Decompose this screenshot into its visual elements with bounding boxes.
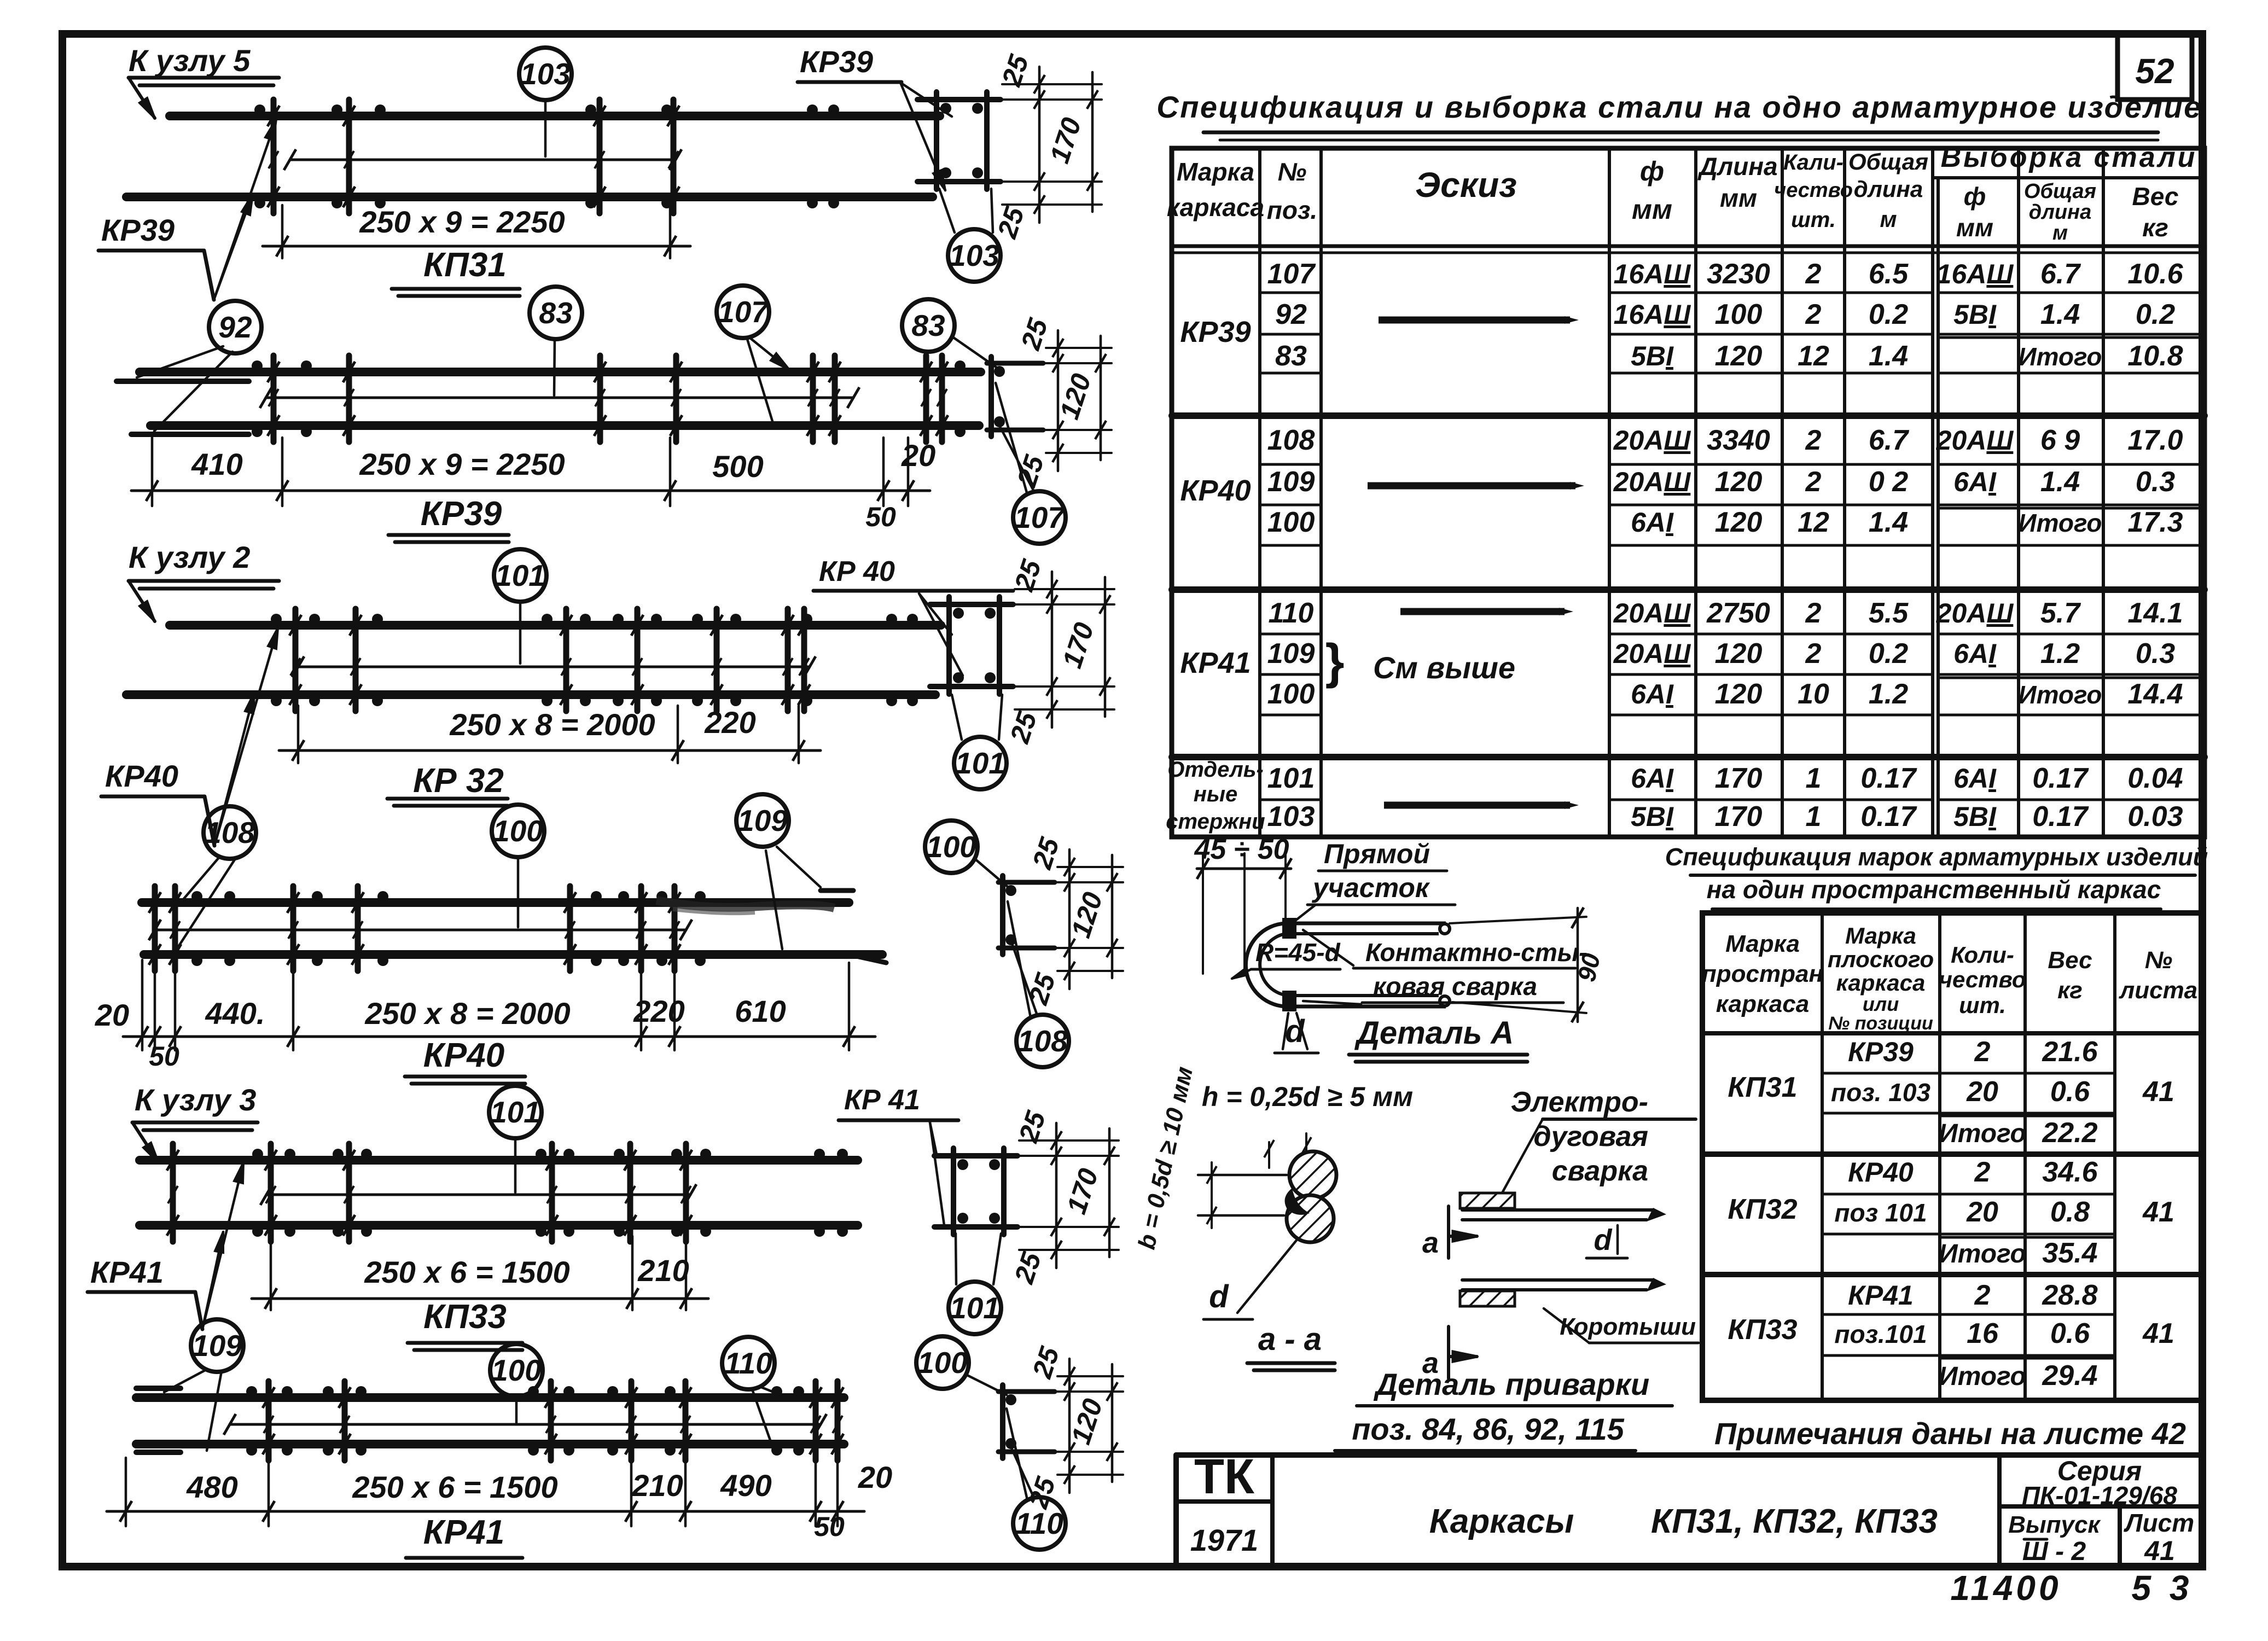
svg-text:16АШ: 16АШ <box>1614 259 1691 289</box>
callout 92 <box>209 301 261 353</box>
svg-text:210: 210 <box>631 1468 683 1503</box>
svg-text:Электро-: Электро- <box>1511 1086 1648 1118</box>
svg-text:41: 41 <box>2142 1318 2174 1349</box>
svg-text:участок: участок <box>1311 872 1430 903</box>
svg-text:поз 101: поз 101 <box>1834 1198 1927 1227</box>
svg-text:Вес: Вес <box>2132 182 2179 211</box>
svg-text:См выше: См выше <box>1373 650 1515 685</box>
svg-text:Прямой: Прямой <box>1324 839 1430 869</box>
svg-text:Спецификация и выборка стали н: Спецификация и выборка стали на одно арм… <box>1156 90 2202 124</box>
top chord bar <box>170 621 941 630</box>
svg-text:КР 41: КР 41 <box>844 1084 920 1116</box>
svg-text:20АШ: 20АШ <box>1613 638 1691 669</box>
svg-text:КР41: КР41 <box>90 1255 164 1289</box>
svg-text:100: 100 <box>1267 678 1315 710</box>
svg-text:220: 220 <box>704 705 755 740</box>
svg-text:0.6: 0.6 <box>2050 1318 2090 1349</box>
stirrup <box>172 886 178 971</box>
lower bar circle <box>1287 1195 1334 1242</box>
svg-text:сварка: сварка <box>1552 1155 1648 1187</box>
svg-text:109: 109 <box>1267 638 1315 670</box>
svg-text:Эскиз: Эскиз <box>1415 165 1517 205</box>
svg-text:Итого: Итого <box>2019 342 2102 371</box>
svg-text:5ВI: 5ВI <box>1953 299 1997 330</box>
dimension 250x8=2000 | 220 <box>297 706 300 763</box>
svg-text:410: 410 <box>191 447 242 481</box>
stirrup <box>673 356 679 442</box>
svg-text:КР40: КР40 <box>105 759 178 793</box>
svg-text:К узлу 3: К узлу 3 <box>135 1083 256 1117</box>
stirrup <box>293 609 299 711</box>
upper bar circle <box>1289 1151 1336 1198</box>
svg-text:Итого: Итого <box>1939 1362 2026 1391</box>
svg-text:1: 1 <box>1806 801 1822 833</box>
svg-text:а: а <box>1422 1226 1439 1259</box>
svg-text:поз.101: поз.101 <box>1834 1320 1927 1348</box>
stirrup <box>567 886 573 971</box>
svg-text:103: 103 <box>949 238 999 272</box>
svg-text:35.4: 35.4 <box>2042 1237 2097 1269</box>
svg-text:41: 41 <box>2142 1196 2174 1228</box>
svg-text:КР39: КР39 <box>1848 1037 1914 1067</box>
svg-text:мм: мм <box>1720 184 1757 212</box>
svg-text:41: 41 <box>2142 1076 2174 1108</box>
svg-text:2: 2 <box>1805 258 1822 290</box>
svg-text:КР40: КР40 <box>1848 1157 1914 1188</box>
svg-text:ПК-01-129/68: ПК-01-129/68 <box>2022 1481 2177 1510</box>
stirrup <box>638 886 644 971</box>
svg-text:Деталь приварки: Деталь приварки <box>1374 1367 1650 1401</box>
svg-text:мм: мм <box>1956 213 1993 242</box>
svg-text:2: 2 <box>1974 1156 1991 1188</box>
stirrup <box>346 356 352 442</box>
svg-text:на один пространственный карка: на один пространственный каркас <box>1707 875 2161 904</box>
svg-text:20АШ: 20АШ <box>1613 467 1691 497</box>
svg-text:КР39: КР39 <box>1180 316 1251 348</box>
svg-text:0.17: 0.17 <box>1860 801 1917 833</box>
svg-text:100: 100 <box>493 814 543 848</box>
svg-text:120: 120 <box>1715 507 1763 538</box>
svg-text:16АШ: 16АШ <box>1936 259 2014 289</box>
svg-text:108: 108 <box>1017 1024 1068 1058</box>
svg-text:чество: чество <box>1774 179 1853 202</box>
middle tie line <box>266 1194 690 1196</box>
svg-text:0.6: 0.6 <box>2050 1076 2090 1108</box>
stirrup <box>635 609 641 711</box>
stirrup <box>714 609 720 711</box>
svg-text:Марка: Марка <box>1177 158 1254 186</box>
svg-text:1.4: 1.4 <box>2040 299 2080 330</box>
svg-text:КР39: КР39 <box>101 213 175 247</box>
svg-text:100: 100 <box>917 1346 968 1380</box>
dim line b lower <box>1198 1214 1284 1217</box>
dimension row 410 | 2250 | 500 | 20 <box>151 438 154 506</box>
svg-text:ные: ные <box>1194 782 1238 806</box>
middle tie line <box>155 929 686 932</box>
bottom chord bar <box>136 1440 844 1448</box>
svg-text:2750: 2750 <box>1706 597 1770 629</box>
svg-text:2: 2 <box>1805 424 1822 456</box>
svg-text:20АШ: 20АШ <box>1613 425 1691 456</box>
dimension 250x9=2250 <box>281 205 284 258</box>
svg-text:120: 120 <box>1715 678 1763 710</box>
svg-text:0.2: 0.2 <box>1869 638 1908 670</box>
stirrup <box>671 100 677 213</box>
svg-text:КР41: КР41 <box>1180 647 1251 679</box>
svg-text:20АШ: 20АШ <box>1936 425 2014 456</box>
svg-text:50: 50 <box>865 502 896 532</box>
svg-text:210: 210 <box>637 1253 689 1288</box>
svg-text:2: 2 <box>1974 1279 1991 1311</box>
svg-text:КР39: КР39 <box>421 495 502 533</box>
svg-text:6АI: 6АI <box>1953 763 1997 794</box>
svg-text:каркаса: каркаса <box>1167 193 1264 222</box>
svg-text:220: 220 <box>633 994 684 1028</box>
svg-text:КР41: КР41 <box>423 1514 504 1551</box>
svg-text:а - а: а - а <box>1258 1322 1322 1357</box>
stirrup <box>266 1381 272 1460</box>
svg-text:5 3: 5 3 <box>2132 1568 2194 1608</box>
cross-section S1 103 <box>917 97 1001 102</box>
svg-text:м: м <box>1880 206 1897 232</box>
svg-text:каркаса: каркаса <box>1836 970 1926 996</box>
svg-text:КП31: КП31 <box>423 246 507 284</box>
svg-text:10: 10 <box>1798 678 1829 710</box>
stirrup <box>290 886 296 971</box>
callout 107 S2 <box>1013 491 1066 544</box>
svg-text:109: 109 <box>1267 466 1315 498</box>
svg-text:R=45-d: R=45-d <box>1255 938 1341 967</box>
svg-text:шт.: шт. <box>1959 992 2006 1018</box>
svg-text:17.3: 17.3 <box>2127 507 2183 538</box>
svg-text:}: } <box>1325 635 1344 689</box>
cross-section S4 <box>998 880 1055 885</box>
stirrup <box>346 1144 352 1242</box>
dimension 250x6=1500 | 210 <box>270 1236 272 1310</box>
svg-text:Ш - 2: Ш - 2 <box>2022 1537 2086 1566</box>
svg-text:Итого: Итого <box>1939 1240 2026 1268</box>
svg-text:2: 2 <box>1805 466 1822 498</box>
svg-text:52: 52 <box>2135 51 2174 91</box>
stirrup <box>353 609 359 711</box>
svg-text:22.2: 22.2 <box>2042 1117 2097 1149</box>
svg-text:12: 12 <box>1798 507 1829 538</box>
svg-text:12: 12 <box>1798 340 1829 372</box>
svg-text:d: d <box>1209 1279 1229 1314</box>
svg-text:3340: 3340 <box>1707 424 1770 456</box>
dimension 480|1500|210|490|20 <box>125 1458 127 1526</box>
svg-text:стержни: стержни <box>1166 810 1265 834</box>
svg-text:6 9: 6 9 <box>2040 424 2080 456</box>
stirrup <box>597 356 603 442</box>
svg-text:490: 490 <box>720 1468 771 1503</box>
sketch bar single rods <box>1384 802 1570 809</box>
stirrup <box>563 609 569 711</box>
svg-text:16АШ: 16АШ <box>1614 299 1691 330</box>
svg-text:простран: простран <box>1702 961 1823 987</box>
cross-section S3 101 <box>930 602 1013 607</box>
svg-text:107: 107 <box>718 295 769 329</box>
svg-text:Спецификация марок арматурных: Спецификация марок арматурных изделий <box>1665 843 2208 871</box>
svg-text:№ позиции: № позиции <box>1828 1013 1933 1034</box>
svg-text:0.03: 0.03 <box>2127 801 2183 833</box>
svg-text:поз. 103: поз. 103 <box>1831 1078 1930 1107</box>
sketch bar KR39 <box>1379 317 1570 324</box>
bottom chord bar <box>150 421 979 430</box>
svg-text:120: 120 <box>1715 638 1763 670</box>
svg-text:листа: листа <box>2119 977 2197 1004</box>
svg-text:6АI: 6АI <box>1631 763 1674 794</box>
svg-text:20: 20 <box>1966 1196 1998 1228</box>
svg-text:м: м <box>2052 222 2068 245</box>
svg-text:16: 16 <box>1967 1318 1999 1349</box>
svg-text:Выпуск: Выпуск <box>2008 1511 2101 1538</box>
bottom chord bar <box>126 193 933 201</box>
svg-text:К узлу 5: К узлу 5 <box>129 43 251 78</box>
weld fillet blob <box>1285 1188 1310 1215</box>
svg-text:Итого: Итого <box>2019 509 2102 537</box>
svg-text:120: 120 <box>1715 340 1763 372</box>
stirrup <box>683 1381 689 1460</box>
svg-text:Марка: Марка <box>1845 923 1916 948</box>
section cut marks a <box>1447 1206 1450 1258</box>
cross-section S5 101 <box>934 1153 1017 1159</box>
svg-text:ТК: ТК <box>1194 1450 1255 1504</box>
svg-text:Итого: Итого <box>2019 680 2102 709</box>
svg-text:1.2: 1.2 <box>2040 638 2080 670</box>
svg-text:5ВI: 5ВI <box>1953 801 1997 832</box>
callout 108 <box>203 806 256 859</box>
svg-text:КР39: КР39 <box>800 44 873 79</box>
svg-text:Контактно-сты-: Контактно-сты- <box>1365 938 1587 967</box>
svg-text:1.4: 1.4 <box>2040 466 2080 498</box>
top chord bar <box>142 898 849 907</box>
svg-text:1.4: 1.4 <box>1869 340 1908 372</box>
svg-text:1.2: 1.2 <box>1869 678 1908 710</box>
svg-text:250 x 9 = 2250: 250 x 9 = 2250 <box>359 205 565 239</box>
svg-text:К узлу 2: К узлу 2 <box>129 540 250 574</box>
stirrup <box>627 1144 633 1242</box>
cross-section S6 <box>998 1389 1055 1394</box>
svg-text:250 x 8 = 2000: 250 x 8 = 2000 <box>364 996 570 1031</box>
dimension 20|440|2000|220|610 <box>141 960 144 1050</box>
svg-text:или: или <box>1863 993 1899 1015</box>
top chord bar <box>139 368 981 376</box>
svg-text:110: 110 <box>724 1346 772 1380</box>
svg-text:2: 2 <box>1974 1036 1991 1068</box>
stirrup <box>271 356 277 442</box>
stirrup <box>152 886 158 971</box>
svg-text:чество: чество <box>1939 967 2026 992</box>
stirrup <box>268 1144 274 1242</box>
svg-text:100: 100 <box>1715 299 1763 330</box>
svg-text:Кали-: Кали- <box>1783 150 1844 174</box>
svg-text:6АI: 6АI <box>1631 679 1674 709</box>
callout 109 <box>191 1319 243 1372</box>
stirrup <box>832 356 838 442</box>
svg-text:0.17: 0.17 <box>2032 763 2089 794</box>
svg-text:107: 107 <box>1014 501 1066 534</box>
svg-text:d: d <box>1594 1224 1613 1256</box>
svg-text:5.7: 5.7 <box>2040 597 2081 629</box>
svg-text:170: 170 <box>1715 763 1763 794</box>
callout 110 S6 <box>1013 1497 1066 1550</box>
middle tie line <box>266 397 853 399</box>
svg-text:КР40: КР40 <box>1180 474 1251 507</box>
stirrup <box>785 609 791 711</box>
page number box 52 <box>2118 34 2192 100</box>
svg-text:92: 92 <box>1275 299 1307 330</box>
svg-text:КП33: КП33 <box>1728 1314 1797 1346</box>
svg-text:50: 50 <box>149 1041 179 1072</box>
bottom chord bar <box>139 1221 858 1230</box>
svg-text:250 x 6 = 1500: 250 x 6 = 1500 <box>364 1255 569 1289</box>
svg-text:поз. 84, 86, 92, 115: поз. 84, 86, 92, 115 <box>1352 1412 1624 1446</box>
bar 92 stub top <box>117 379 249 384</box>
svg-text:0.04: 0.04 <box>2127 763 2183 794</box>
svg-text:ковая сварка: ковая сварка <box>1373 972 1537 1000</box>
svg-text:КР41: КР41 <box>1848 1280 1914 1311</box>
svg-text:20: 20 <box>1966 1076 1998 1108</box>
svg-text:Итого: Итого <box>1939 1119 2026 1148</box>
svg-text:КР 40: КР 40 <box>819 556 895 587</box>
bar 92 stub bottom <box>131 432 249 437</box>
svg-text:Примечания даны на листе 42: Примечания даны на листе 42 <box>1714 1416 2186 1451</box>
svg-text:34.6: 34.6 <box>2042 1156 2098 1188</box>
svg-text:Лист: Лист <box>2124 1509 2194 1537</box>
svg-text:Общая: Общая <box>2024 180 2096 203</box>
svg-text:мм: мм <box>1632 194 1672 225</box>
svg-text:№: № <box>2145 947 2172 974</box>
svg-text:103: 103 <box>520 57 571 91</box>
svg-text:41: 41 <box>2144 1535 2175 1566</box>
callout 107 <box>717 286 769 338</box>
callout 100 S4 <box>925 821 978 873</box>
svg-text:шт.: шт. <box>1791 208 1836 232</box>
svg-text:0.3: 0.3 <box>2136 466 2175 498</box>
svg-text:50: 50 <box>814 1511 845 1542</box>
stirrup <box>346 100 352 213</box>
svg-text:ф: ф <box>1964 182 1986 211</box>
svg-text:0.17: 0.17 <box>2032 801 2089 833</box>
svg-text:108: 108 <box>205 816 255 849</box>
callout 110 <box>722 1337 775 1389</box>
svg-text:0.17: 0.17 <box>1860 763 1917 794</box>
svg-text:100: 100 <box>1267 507 1315 538</box>
middle tie line <box>290 159 676 161</box>
svg-text:5ВI: 5ВI <box>1631 801 1674 832</box>
svg-text:ф: ф <box>1640 156 1664 187</box>
svg-text:6.5: 6.5 <box>1869 258 1909 290</box>
middle tie line <box>230 1423 821 1426</box>
svg-text:1971: 1971 <box>1190 1523 1259 1557</box>
svg-text:5ВI: 5ВI <box>1631 341 1674 371</box>
stirrup <box>810 356 816 442</box>
svg-text:КР 32: КР 32 <box>413 762 504 800</box>
svg-text:Коли-: Коли- <box>1951 942 2014 968</box>
svg-text:Отдель-: Отдель- <box>1167 758 1264 782</box>
stirrup <box>355 886 361 971</box>
svg-text:0.2: 0.2 <box>2136 299 2175 330</box>
svg-text:6АI: 6АI <box>1631 507 1674 538</box>
sketch bar KR40 <box>1368 482 1575 490</box>
svg-text:83: 83 <box>539 296 572 330</box>
svg-text:Каркасы: Каркасы <box>1429 1503 1574 1540</box>
svg-text:29.4: 29.4 <box>2042 1360 2097 1392</box>
callout 100 S6 <box>916 1336 969 1389</box>
svg-text:№: № <box>1278 158 1307 186</box>
svg-text:0 2: 0 2 <box>1869 466 1908 498</box>
callout 101 <box>494 549 546 602</box>
svg-text:0.8: 0.8 <box>2050 1196 2090 1228</box>
svg-text:109: 109 <box>737 804 788 837</box>
cross-section S2 <box>987 361 1043 366</box>
callout 101 <box>489 1086 542 1138</box>
svg-text:10.6: 10.6 <box>2127 258 2183 290</box>
svg-text:10.8: 10.8 <box>2127 340 2183 372</box>
svg-text:0.2: 0.2 <box>1869 299 1908 330</box>
svg-text:Вес: Вес <box>2048 947 2092 974</box>
callout 101 S5 <box>949 1282 1001 1334</box>
svg-text:100: 100 <box>491 1353 542 1387</box>
svg-text:дуговая: дуговая <box>1533 1121 1648 1153</box>
callout 100 <box>492 805 544 857</box>
svg-text:21.6: 21.6 <box>2042 1036 2098 1068</box>
title block <box>1176 1452 2202 1458</box>
svg-text:108: 108 <box>1267 424 1315 456</box>
svg-text:101: 101 <box>955 746 1005 780</box>
stirrup <box>923 356 929 442</box>
svg-text:101: 101 <box>1267 763 1315 794</box>
svg-text:610: 610 <box>735 994 786 1028</box>
callout 103 S1 <box>948 229 1001 282</box>
svg-text:83: 83 <box>911 309 945 342</box>
svg-text:КП31, КП32, КП33: КП31, КП32, КП33 <box>1651 1503 1938 1540</box>
svg-text:6АI: 6АI <box>1953 467 1997 497</box>
svg-text:КП33: КП33 <box>423 1298 507 1336</box>
svg-text:28.8: 28.8 <box>2042 1279 2097 1311</box>
stirrup <box>835 1381 841 1460</box>
svg-text:длина: длина <box>2029 201 2091 224</box>
svg-text:110: 110 <box>1269 597 1314 629</box>
svg-text:Деталь А: Деталь А <box>1354 1015 1514 1051</box>
svg-text:480: 480 <box>186 1470 237 1504</box>
callout 83 S2 <box>902 299 955 352</box>
callout 109 <box>736 794 789 847</box>
svg-text:Длина: Длина <box>1697 152 1777 181</box>
middle tie line <box>298 666 810 668</box>
stirrup <box>548 1381 554 1460</box>
svg-text:0.3: 0.3 <box>2136 638 2175 670</box>
svg-text:17.0: 17.0 <box>2127 424 2183 456</box>
top chord bar <box>170 112 940 120</box>
svg-text:Марка: Марка <box>1725 930 1800 957</box>
callout 103 <box>519 48 572 100</box>
svg-text:120: 120 <box>1715 466 1763 498</box>
svg-text:КП31: КП31 <box>1728 1072 1797 1103</box>
sketch bar KR41 <box>1400 608 1565 615</box>
svg-text:Выборка стали: Выборка стали <box>1941 142 2197 173</box>
stirrup <box>342 1381 348 1460</box>
callout 108 S4 <box>1016 1015 1069 1067</box>
svg-text:кг: кг <box>2057 977 2083 1004</box>
svg-text:14.1: 14.1 <box>2127 597 2183 629</box>
svg-text:КР40: КР40 <box>423 1037 504 1074</box>
svg-text:101: 101 <box>495 558 545 592</box>
callout 83 <box>530 287 582 339</box>
svg-text:83: 83 <box>1275 340 1307 372</box>
svg-text:20: 20 <box>95 998 129 1032</box>
